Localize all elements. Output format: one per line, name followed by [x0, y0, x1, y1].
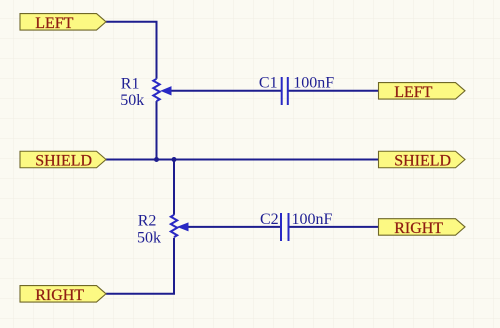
svg-text:LEFT: LEFT: [394, 84, 432, 101]
port RIGHT (input, left): [20, 286, 106, 304]
port RIGHT (output, right): [379, 219, 466, 237]
svg-text:LEFT: LEFT: [35, 15, 73, 32]
port LEFT (input, left): [20, 14, 106, 32]
svg-text:C2: C2: [260, 211, 279, 228]
wire: C2 to RIGHT output pennant: [289, 226, 379, 228]
svg-text:RIGHT: RIGHT: [394, 220, 443, 237]
svg-text:R1: R1: [121, 75, 140, 92]
wire: R1 bottom to SHIELD net: [156, 101, 158, 159]
wire: R2 wiper to C2: [188, 226, 281, 228]
capacitor C1: [282, 77, 288, 105]
svg-text:SHIELD: SHIELD: [35, 153, 92, 170]
port SHIELD (output, right): [379, 151, 466, 169]
junction node at R2/SHIELD: [172, 157, 177, 162]
svg-text:R2: R2: [138, 212, 157, 229]
resistor R1 (potentiometer): [153, 79, 171, 101]
wire: R1 wiper to C1: [171, 90, 282, 92]
port SHIELD (input, left): [20, 151, 106, 169]
svg-text:50k: 50k: [137, 229, 161, 246]
wire: LEFT pennant to R1 top: [106, 22, 157, 79]
resistor R2 (potentiometer): [171, 215, 188, 237]
svg-text:50k: 50k: [120, 92, 144, 109]
svg-text:C1: C1: [259, 75, 278, 92]
svg-text:100nF: 100nF: [292, 211, 333, 228]
wire: C1 to LEFT output pennant: [288, 90, 379, 92]
svg-text:SHIELD: SHIELD: [394, 153, 451, 170]
port LEFT (output, right): [379, 83, 466, 101]
wire: R2 bottom to RIGHT pennant: [106, 238, 174, 294]
wire: SHIELD net down to R2 top: [173, 160, 175, 215]
wire: SHIELD horizontal: [106, 159, 379, 161]
junction node at R1/SHIELD: [154, 157, 159, 162]
capacitor C2: [281, 213, 289, 241]
svg-text:100nF: 100nF: [293, 75, 334, 92]
svg-text:RIGHT: RIGHT: [35, 287, 84, 304]
